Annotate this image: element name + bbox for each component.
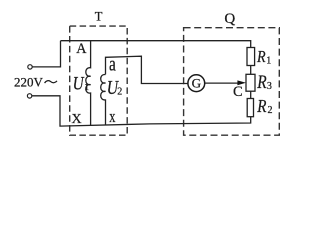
svg-text:G: G [192, 76, 201, 91]
svg-text:R: R [256, 47, 266, 66]
svg-text:220V: 220V [14, 75, 44, 90]
svg-text:U: U [73, 73, 85, 94]
svg-text:2: 2 [268, 105, 273, 116]
svg-text:1: 1 [84, 83, 89, 93]
svg-text:T: T [95, 9, 103, 23]
svg-text:Q: Q [224, 11, 235, 27]
svg-text:2: 2 [117, 86, 122, 97]
svg-text:x: x [109, 107, 116, 126]
svg-text:C: C [233, 84, 243, 100]
svg-text:A: A [76, 41, 87, 57]
svg-text:1: 1 [266, 56, 271, 67]
svg-text:3: 3 [267, 81, 272, 92]
svg-text:R: R [256, 96, 266, 116]
svg-text:X: X [72, 112, 82, 127]
svg-text:a: a [109, 53, 116, 75]
svg-text:R: R [256, 73, 266, 93]
